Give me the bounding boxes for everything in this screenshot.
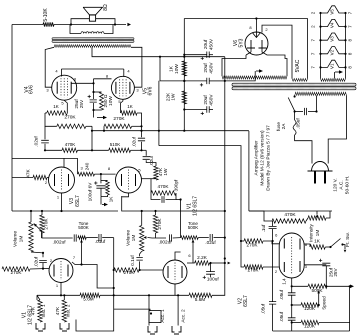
resistor 270K V5 grid leak <box>104 124 132 128</box>
capacitor 100uf V1b <box>210 263 212 272</box>
svg-text:20uf: 20uf <box>203 95 209 105</box>
wire V4 cathode <box>71 82 93 84</box>
svg-text:270K: 270K <box>113 116 125 122</box>
wire bus ch2 <box>122 196 225 211</box>
resistor 47K 1W <box>154 166 158 180</box>
resistor 22K 1W <box>182 91 186 104</box>
resistor 120K ladder2 <box>301 320 319 324</box>
resistor 1K V4 side <box>64 100 67 113</box>
wire primary right to plug <box>328 95 346 163</box>
wire rail to 5V winding right <box>307 19 309 79</box>
transformer T2 heater winding <box>321 79 346 82</box>
tube V4 6V6 <box>52 75 77 100</box>
resistor 5.6M ch1 <box>80 293 100 297</box>
wire speaker frame <box>71 19 89 25</box>
wire tone ch1 drop <box>76 238 114 331</box>
svg-text:1K: 1K <box>109 197 114 203</box>
wire acc2 drop <box>177 295 179 325</box>
resistor 5-10K <box>43 22 54 26</box>
wire tremolo feed <box>248 131 250 211</box>
resistor 270K V4 grid leak <box>57 124 86 128</box>
jack acc structure <box>148 295 150 325</box>
resistor 510K feedback <box>109 148 131 152</box>
capacitor .05uf line <box>295 111 303 113</box>
capacitor .1uf tremolo <box>269 226 277 228</box>
resistor 270K tremolo b <box>244 265 263 269</box>
svg-text:500K: 500K <box>188 225 199 230</box>
tube V3b 6SL7 <box>116 167 142 193</box>
wire V1a bottom <box>60 283 62 296</box>
capacitor 20uf 450V no1 <box>184 54 206 56</box>
heater V5 <box>321 6 346 13</box>
svg-text:100uf 6V: 100uf 6V <box>88 182 93 202</box>
capacitor 25uf 25V <box>93 92 95 99</box>
speed pot 500K <box>308 284 327 288</box>
resistor 47K inst2 <box>62 300 66 322</box>
capacitor 390pf with 470K <box>150 179 152 193</box>
svg-text:5Y3: 5Y3 <box>239 38 245 47</box>
jack inst 1 <box>36 323 45 331</box>
wire screen feed <box>160 57 184 81</box>
capacitor .02uf ch1 coupling <box>31 251 43 254</box>
svg-text:1W: 1W <box>163 168 169 176</box>
transformer T1 core <box>52 38 134 40</box>
wire V3a cathode to bus <box>61 193 63 211</box>
wire to V1a grid <box>43 268 50 270</box>
svg-text:1K: 1K <box>169 65 175 72</box>
svg-text:1M: 1M <box>315 230 321 237</box>
svg-text:Inst. 2: Inst. 2 <box>66 304 72 317</box>
svg-text:.02uf: .02uf <box>34 256 39 267</box>
svg-text:6SL7: 6SL7 <box>75 195 81 207</box>
capacitor .02uf coupling B upper <box>141 131 143 138</box>
jack inst 2 <box>60 323 69 331</box>
svg-text:470K: 470K <box>65 142 76 147</box>
svg-text:270K: 270K <box>124 270 136 275</box>
wire plate V5 to primary <box>131 47 142 87</box>
jack acc 2 <box>172 326 181 334</box>
svg-text:450V: 450V <box>209 38 215 50</box>
svg-text:2.2K: 2.2K <box>197 255 208 260</box>
filament bus left <box>320 13 322 79</box>
svg-text:120 V.: 120 V. <box>333 178 339 191</box>
capacitor .02uf coupling A <box>44 126 46 139</box>
wire B+ bus horizontal mid <box>92 130 249 132</box>
svg-text:1K: 1K <box>314 239 321 244</box>
svg-text:.05uf: .05uf <box>279 289 284 300</box>
wire bus corner down <box>91 126 93 150</box>
svg-text:25V: 25V <box>333 267 338 276</box>
svg-text:.01uf: .01uf <box>95 239 106 244</box>
svg-text:.002uf: .002uf <box>158 240 172 245</box>
svg-text:Model M-12 (6V6 version): Model M-12 (6V6 version) <box>260 130 266 186</box>
wire plate V4 to primary <box>45 47 54 87</box>
svg-text:V4: V4 <box>330 22 335 28</box>
svg-text:1M: 1M <box>19 236 25 243</box>
svg-text:1W: 1W <box>171 93 177 101</box>
svg-text:20uf: 20uf <box>203 39 209 49</box>
svg-text:10W: 10W <box>174 64 180 74</box>
tube V2 6SL7 <box>279 233 304 278</box>
tube V1a 6SL7 <box>49 259 73 283</box>
intensity pot 1M <box>308 216 326 220</box>
svg-text:450V: 450V <box>209 94 215 106</box>
svg-text:5.6M: 5.6M <box>195 297 206 302</box>
svg-text:.02uf: .02uf <box>132 136 137 147</box>
tube V6 5Y3 <box>245 32 268 55</box>
svg-text:1K: 1K <box>127 104 133 109</box>
svg-text:0.1uf: 0.1uf <box>130 255 135 266</box>
resistor 1K V3 cathode <box>101 180 108 182</box>
node speaker rail <box>12 24 43 26</box>
wire PI plate feed <box>12 157 78 159</box>
resistor 240 V3a <box>77 158 79 174</box>
svg-text:.1uf: .1uf <box>261 224 266 233</box>
svg-text:Volume: Volume <box>13 231 19 247</box>
svg-text:450V: 450V <box>209 62 215 74</box>
capacitor .01uf ch1 <box>99 234 101 241</box>
resistor 47K inst1 <box>36 295 38 300</box>
resistor 270K tremolo a <box>244 239 263 243</box>
wire to mixer bus <box>176 199 181 201</box>
svg-text:V2: V2 <box>330 49 335 55</box>
capacitor 25uf 25V V2 <box>304 264 326 266</box>
svg-text:Drawn By Joe Piazza 5 / 7 /: Drawn By Joe Piazza 5 / 7 / 97 <box>266 125 272 191</box>
svg-text:270K: 270K <box>248 268 260 273</box>
capacitor 100uf 6V <box>100 174 102 180</box>
resistor 470K tremolo <box>272 219 306 223</box>
jack acc 1 <box>148 326 157 334</box>
wire HV center tap ground <box>254 71 256 76</box>
wire bus ch1 <box>12 210 118 212</box>
svg-text:Acc. 2: Acc. 2 <box>181 309 187 323</box>
wire V1b plate <box>175 252 181 260</box>
transformer T1 primary <box>54 45 131 48</box>
transformer T1 secondary <box>70 25 81 34</box>
svg-text:1/2 6SL7: 1/2 6SL7 <box>193 196 199 216</box>
wire HV CT link <box>225 76 255 81</box>
svg-text:Speed: Speed <box>322 296 327 310</box>
wire fuse to plug <box>295 135 312 164</box>
svg-text:5VAC: 5VAC <box>295 59 301 72</box>
capacitor .05uf tremolo out <box>269 302 276 305</box>
svg-text:10W: 10W <box>108 96 114 106</box>
capacitor 20uf 450V no3 <box>184 109 206 111</box>
wire V6 plate left <box>250 48 252 52</box>
wire to acc1 box <box>114 309 150 311</box>
svg-text:V5: V5 <box>330 9 335 15</box>
heater V3 <box>321 33 346 40</box>
heater V1 <box>321 60 346 67</box>
svg-text:500K: 500K <box>312 288 324 293</box>
wire B+ rail top <box>184 18 307 20</box>
resistor 1K V5 grid <box>121 99 123 113</box>
resistor 120K ladder1 <box>301 303 319 307</box>
capacitor .05uf ladder1 <box>288 293 296 295</box>
wire V1b bottom to bus <box>174 284 176 295</box>
svg-text:V1: V1 <box>330 63 335 69</box>
wire tremolo net to v2 grid <box>272 240 274 242</box>
svg-text:2A: 2A <box>281 123 286 130</box>
wire V1a cathode <box>72 262 114 288</box>
wire V6 plate right <box>262 48 287 76</box>
svg-text:120K: 120K <box>304 324 316 329</box>
wire tremolo bus <box>249 210 332 212</box>
svg-text:1M: 1M <box>131 235 137 242</box>
svg-text:47K: 47K <box>26 168 32 177</box>
svg-text:Inst. 1: Inst. 1 <box>41 304 47 317</box>
resistor 1K tremolo <box>304 244 310 247</box>
svg-text:25V: 25V <box>79 99 85 108</box>
heater V2 <box>321 47 346 54</box>
svg-text:.02uf: .02uf <box>205 240 216 245</box>
capacitor .01uf ch2 <box>198 237 209 239</box>
ground arrow cathode <box>93 110 95 118</box>
transformer T2 5V winding <box>292 79 308 82</box>
wire V3b plate to 47K 1W <box>142 178 157 180</box>
resistor 5.6M ch2 <box>189 293 212 297</box>
svg-text:.05uf: .05uf <box>261 303 266 314</box>
capacitor .1uf ch2 coupling <box>140 251 142 256</box>
svg-text:270K: 270K <box>64 115 76 121</box>
wire V6 pin2 to 5V winding <box>262 25 292 78</box>
wire signal to tremolo <box>159 146 241 241</box>
wire primary left down <box>294 94 296 96</box>
svg-text:6V6: 6V6 <box>29 85 35 94</box>
svg-text:.02uf: .02uf <box>34 136 39 147</box>
svg-text:470K: 470K <box>284 212 296 218</box>
svg-text:Ampeg Amplifier: Ampeg Amplifier <box>254 140 260 175</box>
wire left bus <box>11 25 13 212</box>
transformer T2 core <box>232 83 356 86</box>
wire input bus <box>37 294 80 296</box>
resistor 270K ch2 <box>153 215 157 233</box>
svg-text:5.6M: 5.6M <box>83 297 94 302</box>
svg-text:270K: 270K <box>11 270 23 275</box>
capacitor 20uf 450V no2 <box>184 80 206 82</box>
capacitor .02uf coupling B lower <box>145 150 147 156</box>
capacitor .002uf ch2 <box>170 234 172 241</box>
wire V3b cathode <box>122 193 129 197</box>
ground arrow heater winding <box>334 72 336 79</box>
svg-text:.05uf: .05uf <box>279 311 284 322</box>
resistor 270K ch1 grid leak <box>2 267 30 271</box>
svg-text:1K: 1K <box>53 104 59 109</box>
transformer T2 HV winding <box>222 76 287 79</box>
resistor 270K ch1 <box>40 215 44 233</box>
svg-text:100uf: 100uf <box>207 277 219 282</box>
svg-text:6V6: 6V6 <box>148 86 154 95</box>
svg-text:Ft. Sw.: Ft. Sw. <box>345 232 351 247</box>
ground arrow V3 cathode <box>100 197 102 205</box>
resistor 270K ch2 grid leak <box>114 268 139 272</box>
svg-text:47K: 47K <box>55 306 61 315</box>
fuse 2A <box>294 112 296 121</box>
svg-text:470K: 470K <box>158 184 170 189</box>
wire screen drop <box>158 81 160 146</box>
svg-text:.002uf: .002uf <box>52 240 66 245</box>
volume pot 1M ch1 <box>29 222 33 252</box>
tone pot 500K ch1 <box>77 237 79 239</box>
svg-text:20uf: 20uf <box>203 63 209 73</box>
svg-text:390pf: 390pf <box>174 179 179 191</box>
svg-text:8Ω: 8Ω <box>103 4 109 11</box>
resistor 250ohm 10W <box>94 91 102 93</box>
svg-text:47K: 47K <box>31 306 37 315</box>
wire V6 cathode to rail <box>255 19 257 38</box>
heater V4 <box>321 19 346 26</box>
capacitor .05uf ladder2 <box>288 318 296 320</box>
AC plug <box>312 162 329 172</box>
svg-text:6SL7: 6SL7 <box>243 295 249 307</box>
svg-text:Acc. 1: Acc. 1 <box>160 309 166 323</box>
wire V2 cathode bottom bus <box>291 278 293 286</box>
tube V1b 6SL7 <box>163 260 187 284</box>
speaker SPK <box>83 7 102 15</box>
volume pot 1M ch2 <box>140 225 144 251</box>
svg-text:270K: 270K <box>157 218 163 230</box>
svg-text:270K: 270K <box>247 243 259 248</box>
svg-text:V3: V3 <box>330 36 335 42</box>
resistor 47K V3 grid <box>12 177 33 179</box>
svg-text:270K: 270K <box>44 218 50 230</box>
wire long vertical to V1b <box>224 57 226 264</box>
svg-text:5-10K: 5-10K <box>43 8 49 22</box>
wire tremolo ground bus <box>273 330 350 332</box>
svg-text:510K: 510K <box>110 142 121 147</box>
capacitor .002uf ch1 <box>42 233 73 238</box>
tube V3a 6SL7 <box>49 167 75 193</box>
wire screen grids <box>61 68 123 70</box>
switch footswitch <box>325 246 330 248</box>
switch power <box>294 95 296 97</box>
svg-text:.02uf: .02uf <box>149 155 154 166</box>
wire primary center tap to B+ <box>92 47 225 56</box>
wire B+ bus vertical <box>183 19 185 132</box>
resistor 470K feedback <box>45 149 62 151</box>
svg-text:1,4: 1,4 <box>282 278 287 285</box>
svg-text:240: 240 <box>85 162 90 170</box>
svg-text:500K: 500K <box>78 225 89 230</box>
tube V5 6V6 <box>111 76 134 99</box>
resistor 2.2K V1b cathode <box>187 262 195 264</box>
tone pot 500K ch2 <box>173 237 181 239</box>
transformer T2 primary <box>295 92 347 95</box>
svg-text:A.C.: A.C. <box>339 180 345 189</box>
svg-text:120K: 120K <box>304 306 316 311</box>
svg-text:Volume: Volume <box>126 230 132 246</box>
resistor 1K 10W <box>182 61 186 76</box>
svg-text:50-60 H.: 50-60 H. <box>345 176 351 194</box>
filament bus right <box>345 13 347 79</box>
wire V5 grid-cathode lead <box>94 78 112 80</box>
